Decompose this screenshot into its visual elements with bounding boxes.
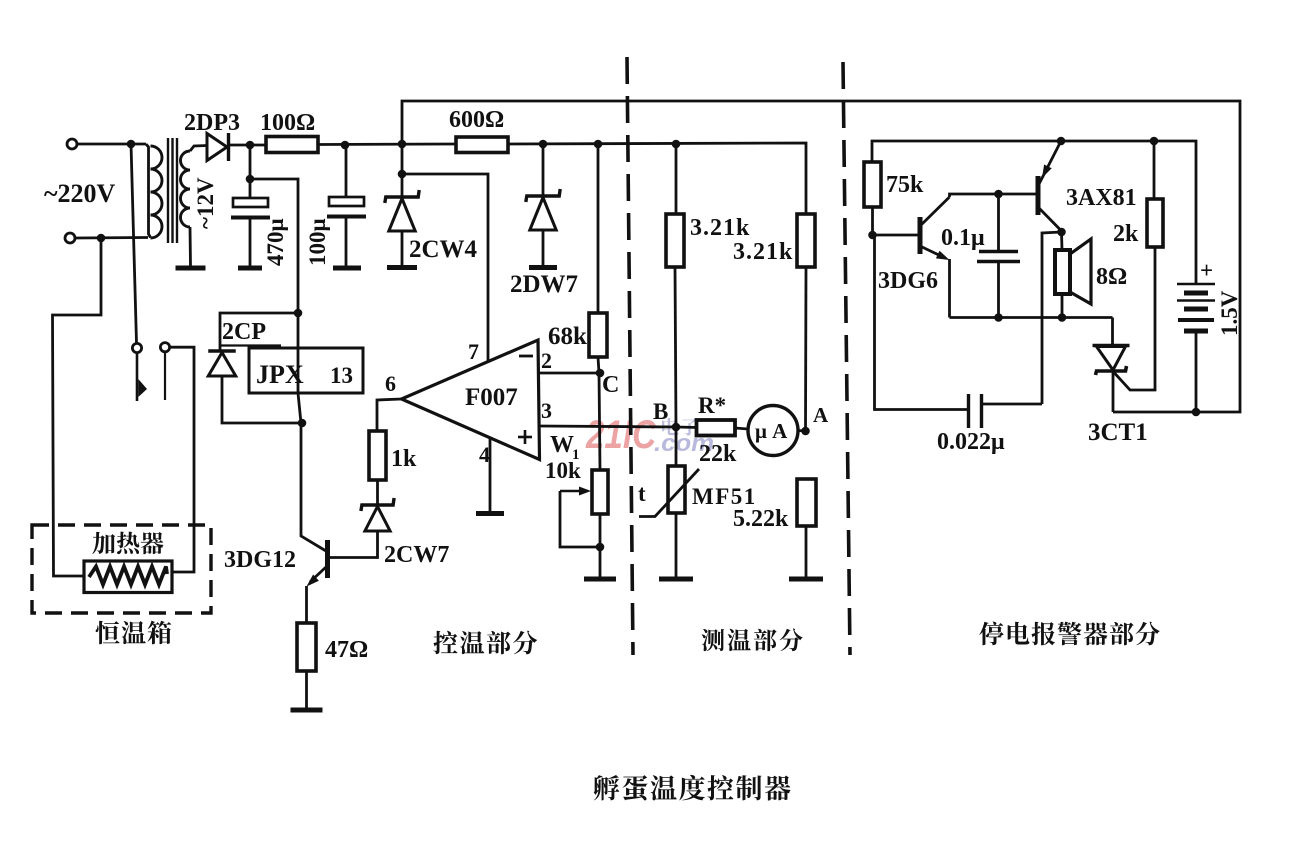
relay coil wire through box bbox=[298, 348, 301, 423]
svg-text:8Ω: 8Ω bbox=[1096, 264, 1127, 290]
2CP label underline bbox=[221, 344, 281, 346]
wire speaker bottom bbox=[1061, 294, 1064, 318]
svg-text:100μ: 100μ bbox=[305, 218, 330, 266]
svg-text:3CT1: 3CT1 bbox=[1088, 419, 1148, 446]
transistor 3AX81 collector bbox=[1038, 207, 1062, 231]
svg-text:68k: 68k bbox=[548, 323, 587, 350]
svg-text:2DP3: 2DP3 bbox=[184, 110, 240, 136]
transistor 3DG6 collector bbox=[920, 197, 950, 226]
wire 3.21k-1 from rail bbox=[675, 144, 678, 214]
svg-text:3DG6: 3DG6 bbox=[878, 268, 938, 294]
zener diode 2CW4 bbox=[385, 190, 419, 203]
diode 2CP bbox=[208, 349, 236, 352]
ground MF51 bbox=[659, 577, 693, 582]
svg-text:1.5V: 1.5V bbox=[1217, 290, 1242, 336]
potentiometer W1 body bbox=[592, 470, 608, 514]
svg-text:~220V: ~220V bbox=[44, 179, 116, 208]
wire 1k to 2CW7 bbox=[376, 480, 379, 505]
wire input top to transformer bbox=[77, 143, 146, 146]
diode 2DP3 bbox=[207, 134, 227, 161]
transistor 3AX81 emitter with arrow to rail bbox=[1038, 141, 1061, 186]
transformer core bbox=[167, 138, 169, 243]
node 68k tap bbox=[594, 140, 603, 149]
transistor 3DG6 base bar bbox=[918, 217, 923, 254]
wire 100ohm to 600ohm bbox=[318, 143, 456, 146]
wire 470u top bbox=[249, 145, 252, 198]
ground 2DW7 bbox=[529, 265, 557, 270]
node after diode bbox=[246, 141, 255, 150]
thyristor 3CT1 anode wire bbox=[1111, 318, 1114, 347]
transistor 3DG12 emitter with arrow bbox=[310, 567, 326, 582]
node 470u to relay feed bbox=[246, 175, 255, 184]
ground W1 bbox=[584, 577, 616, 582]
capacitor 100u negative plate bbox=[327, 215, 366, 219]
svg-text:600Ω: 600Ω bbox=[449, 107, 504, 133]
capacitor 0.022u left wire bbox=[875, 235, 968, 410]
svg-text:~12V: ~12V bbox=[193, 177, 218, 229]
node relay coil top bbox=[294, 309, 303, 318]
wire 600ohm to right bbox=[508, 143, 806, 214]
wire 75k to base node bbox=[871, 207, 874, 235]
resistor 2k bbox=[1147, 199, 1163, 247]
resistor 75k bbox=[864, 162, 881, 207]
svg-text:2CW4: 2CW4 bbox=[409, 236, 478, 263]
wire 470u bottom to ground bbox=[249, 218, 252, 267]
transistor 3DG12 collector bbox=[301, 423, 326, 551]
resistor 47ohm bbox=[297, 623, 316, 671]
pin 6 wire bbox=[377, 399, 402, 431]
thyristor 3CT1 cathode wire bbox=[1112, 372, 1115, 412]
svg-text:2CP: 2CP bbox=[222, 319, 266, 345]
transformer T secondary winding bbox=[181, 151, 191, 227]
transistor 3DG6 emitter with arrow bbox=[920, 246, 943, 257]
node C junction bbox=[596, 369, 605, 378]
terminal input bottom bbox=[65, 233, 75, 243]
W1 wiper arrow bbox=[560, 490, 586, 492]
svg-text:3DG12: 3DG12 bbox=[224, 547, 296, 573]
heater resistor box bbox=[84, 561, 172, 593]
node 2k tap bbox=[1150, 137, 1159, 146]
wire W1 to ground bbox=[599, 514, 602, 577]
resistor 1k bbox=[369, 431, 386, 480]
wire 5.22k to ground bbox=[805, 526, 808, 577]
wire 2DW7 from rail bbox=[542, 144, 545, 196]
meter uA body bbox=[748, 406, 798, 456]
wire 47ohm to ground bbox=[305, 671, 308, 708]
svg-text:22k: 22k bbox=[699, 441, 737, 467]
svg-text:21IC: 21IC bbox=[585, 413, 657, 457]
speaker 8ohm body bbox=[1055, 250, 1070, 294]
svg-text:W: W bbox=[550, 432, 574, 458]
wire collector jog to 0.022u bbox=[1042, 232, 1062, 404]
wire 2CW7 to 3DG12 base bbox=[330, 531, 378, 558]
wire diode to 100ohm bbox=[230, 144, 266, 147]
relay contact left prong with wedge bbox=[136, 353, 139, 401]
svg-text:0.1μ: 0.1μ bbox=[941, 225, 985, 251]
svg-text:7: 7 bbox=[468, 339, 479, 364]
wire top junction down to contact bbox=[131, 144, 137, 343]
ground transformer bbox=[176, 266, 206, 271]
wire input bottom to transformer bbox=[75, 236, 148, 239]
svg-text:3.21k: 3.21k bbox=[733, 239, 793, 265]
relay contact right terminal bbox=[160, 343, 169, 352]
node junction top-left bbox=[127, 140, 136, 149]
transistor 3DG12 base bar bbox=[325, 540, 330, 578]
svg-text:2: 2 bbox=[541, 348, 552, 373]
wire MF51 to ground bbox=[675, 513, 678, 577]
svg-text:t: t bbox=[638, 481, 646, 506]
ground 470u bbox=[238, 266, 262, 271]
title fudan wendu kongzhiqi bbox=[594, 775, 791, 801]
node 2CW4 branch bbox=[398, 170, 407, 179]
op-amp minus sign bbox=[519, 355, 533, 358]
resistor 5.22k bbox=[797, 479, 816, 526]
svg-text:0.022μ: 0.022μ bbox=[937, 429, 1005, 455]
wire base node to 3DG6 bbox=[873, 234, 919, 237]
watermark chinese characters bbox=[662, 418, 718, 436]
wire R* to meter bbox=[735, 428, 748, 429]
wire alarm sub-rail bbox=[872, 141, 1196, 284]
svg-text:3: 3 bbox=[541, 398, 552, 423]
wire relay feed from 470u node bbox=[250, 179, 298, 348]
section divider dashed line 2 bbox=[843, 62, 850, 655]
relay contact right prong bbox=[164, 353, 166, 401]
pin 2 wire bbox=[539, 372, 600, 375]
svg-text:2DW7: 2DW7 bbox=[510, 271, 578, 298]
svg-text:47Ω: 47Ω bbox=[325, 637, 368, 663]
svg-text:10k: 10k bbox=[545, 458, 581, 483]
wire contact to heater right bbox=[170, 347, 194, 572]
svg-text:3.21k: 3.21k bbox=[690, 215, 750, 241]
node 0.1u bottom bbox=[994, 313, 1003, 322]
ground 2CW4 bbox=[387, 265, 417, 270]
svg-text:1k: 1k bbox=[391, 446, 417, 472]
transistor 3AX81 base bar bbox=[1036, 176, 1041, 215]
resistor 100ohm bbox=[266, 137, 318, 153]
section divider dashed line 1 bbox=[627, 57, 633, 655]
node 3.21k tap bbox=[672, 140, 681, 149]
battery 1.5V plates bbox=[1177, 283, 1215, 286]
transformer T primary winding bbox=[146, 144, 151, 238]
wire op-amp V+ feed bbox=[402, 174, 488, 361]
svg-text:2k: 2k bbox=[1113, 221, 1139, 247]
wire collector to speaker bbox=[1060, 232, 1063, 250]
zener diode 2CW7 bbox=[361, 498, 394, 511]
thermistor MF51 diagonal bbox=[639, 469, 699, 517]
relay JPX-13 coil box bbox=[249, 348, 363, 393]
resistor 68k bbox=[589, 313, 607, 357]
node A junction bbox=[801, 427, 810, 436]
thyristor 3CT1 gate wire bbox=[1115, 247, 1156, 390]
resistor 3.21k first bbox=[666, 214, 684, 267]
label cewen section bbox=[702, 628, 803, 651]
wire node B to R* bbox=[676, 426, 698, 429]
terminal input top bbox=[67, 139, 77, 149]
wire 68k from rail bbox=[597, 144, 600, 313]
resistor 3.21k second bbox=[797, 214, 815, 267]
capacitor 470u negative plate bbox=[231, 216, 270, 220]
wire top rail bbox=[402, 101, 1240, 412]
node B junction bbox=[672, 423, 681, 432]
svg-text:75k: 75k bbox=[886, 172, 924, 198]
svg-text:5.22k: 5.22k bbox=[733, 506, 789, 532]
W1 wiper to bottom loop bbox=[560, 491, 600, 547]
wire 220V to heater left bbox=[53, 238, 102, 576]
svg-text:μ A: μ A bbox=[755, 419, 788, 443]
pin 4 wire bbox=[489, 438, 492, 512]
ground 47ohm bbox=[291, 708, 323, 713]
svg-text:2CW7: 2CW7 bbox=[384, 542, 449, 568]
label heater jiareqi bbox=[92, 532, 163, 555]
capacitor 100u positive plate bbox=[329, 197, 364, 206]
thermistor MF51 body bbox=[668, 466, 685, 513]
wire 3.21k-1 to node B bbox=[675, 267, 676, 427]
wire 100u top bbox=[345, 145, 348, 197]
wire 3.21k-2 to node A bbox=[804, 267, 807, 431]
node 3AX81 emitter junction bbox=[1057, 137, 1066, 146]
op-amp plus sign bbox=[518, 436, 532, 439]
svg-text:C: C bbox=[602, 372, 619, 398]
node battery bottom bbox=[1192, 408, 1201, 417]
thyristor 3CT1 body bbox=[1093, 344, 1130, 348]
capacitor 470u positive plate bbox=[233, 198, 268, 207]
svg-text:13: 13 bbox=[330, 363, 353, 388]
label tingdian section bbox=[979, 622, 1159, 646]
svg-text:100Ω: 100Ω bbox=[260, 110, 315, 136]
wire 3DG6 emitter drop bbox=[948, 259, 951, 318]
node speaker bottom bbox=[1058, 313, 1067, 322]
ground pin 4 bbox=[476, 511, 504, 516]
label kongwen section bbox=[433, 631, 537, 655]
capacitor 0.1u bbox=[997, 194, 1000, 250]
ground 5.22k bbox=[789, 577, 823, 582]
svg-text:470μ: 470μ bbox=[263, 218, 288, 266]
zener diode 2DW7 bbox=[526, 189, 560, 202]
wire 3DG6 collector to 3AX81 base bbox=[950, 194, 1037, 197]
node relay coil bottom bbox=[298, 419, 307, 428]
node W1 bottom bbox=[596, 543, 605, 552]
node 3DG6 base bbox=[868, 231, 877, 240]
wire meter to node A bbox=[798, 429, 806, 432]
heater zigzag element bbox=[89, 567, 167, 585]
speaker cone bbox=[1070, 239, 1091, 304]
resistor R* 22k bbox=[697, 420, 736, 436]
node 0.1u top bbox=[994, 190, 1003, 199]
wire 2k top bbox=[1153, 141, 1156, 199]
node 2DW7 tap bbox=[539, 140, 548, 149]
wire 68k to node C bbox=[598, 357, 600, 470]
node 3AX81 collector junction bbox=[1057, 228, 1066, 237]
wire battery bottom bbox=[1195, 331, 1198, 412]
svg-text:F007: F007 bbox=[465, 384, 518, 411]
capacitor 0.022u plates bbox=[967, 394, 970, 428]
relay contact left terminal bbox=[132, 343, 141, 352]
pin 3 wire to node B bbox=[540, 426, 676, 427]
capacitor 0.022u right wire bbox=[982, 403, 1042, 406]
svg-text:A: A bbox=[813, 403, 829, 427]
wire MF51 top bbox=[675, 427, 678, 466]
svg-text:3AX81: 3AX81 bbox=[1066, 185, 1137, 211]
wire secondary bottom to ground bbox=[189, 227, 192, 266]
wire emitter to 47ohm bbox=[305, 586, 308, 623]
node junction bottom-left bbox=[97, 234, 106, 243]
wire 2CP bottom bbox=[222, 376, 302, 423]
svg-text:+: + bbox=[1200, 258, 1213, 283]
wire to 2CP top bbox=[220, 313, 298, 350]
ground 100u bbox=[333, 266, 361, 271]
node +12V rail tap bbox=[398, 140, 407, 149]
svg-text:6: 6 bbox=[385, 371, 396, 396]
svg-text:R*: R* bbox=[698, 393, 726, 418]
svg-text:B: B bbox=[653, 399, 668, 424]
resistor 600ohm bbox=[456, 137, 508, 153]
wire alarm bottom line bbox=[950, 316, 1113, 319]
wire secondary top to diode bbox=[190, 146, 207, 152]
op-amp F007 body bbox=[402, 340, 540, 460]
svg-text:4: 4 bbox=[479, 442, 490, 467]
wire 100u bottom to ground bbox=[345, 217, 348, 267]
label hengwenxiang bbox=[96, 621, 172, 645]
wire 2CW4 from branch node bbox=[401, 174, 404, 197]
node 100u tap bbox=[341, 141, 350, 150]
thermostat box dashed bbox=[32, 525, 211, 613]
